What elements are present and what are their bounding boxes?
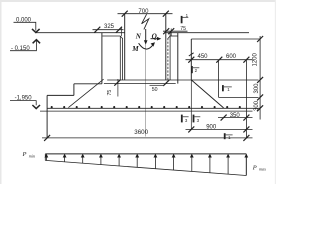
- bedding layer: [40, 110, 253, 112]
- cup mouth ledge right: [170, 35, 178, 37]
- section mark (under 450): [192, 66, 199, 73]
- svg-text:1200: 1200: [253, 52, 259, 66]
- footing left: step 1 face: [73, 84, 75, 96]
- svg-text:75: 75: [180, 26, 186, 32]
- dimension 350: [218, 115, 253, 121]
- svg-text:0.000: 0.000: [16, 17, 32, 23]
- footing right slope: [191, 80, 223, 108]
- svg-text:300: 300: [254, 100, 260, 111]
- footing left: step 2 top: [47, 94, 74, 96]
- svg-text:1: 1: [227, 87, 230, 92]
- force N arrow: [144, 29, 148, 45]
- pedestal ext line down to 900 dim: [190, 80, 192, 129]
- svg-text:2: 2: [195, 68, 198, 73]
- svg-text:300: 300: [254, 83, 260, 94]
- cup outer wall left: [101, 33, 103, 84]
- level mark 0.000: [14, 22, 40, 32]
- svg-text:75: 75: [107, 90, 113, 96]
- cup mouth ledge left: [102, 35, 120, 37]
- footing right step top: [219, 96, 259, 98]
- dimension line 1200 / 300 / 300 (vertical right): [257, 36, 263, 120]
- dimension 700: [118, 11, 173, 17]
- rebar dots: [51, 106, 241, 108]
- cup inner wall left (double): [119, 36, 121, 80]
- footing right edge + extension: [245, 60, 247, 139]
- column: [124, 14, 126, 80]
- footing right step edge: [218, 60, 220, 98]
- section mark (near 900): [225, 133, 233, 139]
- column break line: [142, 14, 149, 29]
- svg-text:50: 50: [152, 87, 158, 93]
- svg-text:450: 450: [198, 54, 209, 60]
- pressure diagram sloped bottom: [45, 160, 246, 175]
- footing left edge + extension: [46, 95, 48, 138]
- dimension 75 (top right): [163, 28, 188, 36]
- grout gap dim 50 (right): [150, 80, 170, 86]
- pressure diagram left edge: [44, 154, 46, 161]
- svg-text:600: 600: [226, 54, 237, 60]
- pedestal edge right: [190, 39, 192, 80]
- svg-text:Q: Q: [152, 32, 157, 40]
- footing bottom: [47, 107, 260, 109]
- svg-text:700: 700: [138, 9, 149, 15]
- svg-text:- 0.150: - 0.150: [11, 46, 30, 52]
- dimension 900: [186, 126, 253, 132]
- svg-text:900: 900: [206, 124, 217, 130]
- cup inner wall right (double): [167, 38, 169, 80]
- cup mouth bevel left: [120, 36, 122, 39]
- cup outer wall right upper: [177, 33, 179, 84]
- svg-text:-1,950: -1,950: [15, 95, 33, 101]
- dimension 325: [93, 27, 124, 36]
- section mark pair right: [194, 115, 201, 123]
- footing left: step 1 top: [74, 83, 102, 85]
- svg-text:3: 3: [185, 118, 188, 123]
- svg-text:P: P: [252, 164, 257, 171]
- level mark -1.950: [10, 101, 40, 109]
- floor line left (0.000): [36, 32, 125, 34]
- footing left slope edge (view): [68, 79, 103, 107]
- svg-text:M: M: [131, 45, 139, 53]
- column axis: [145, 42, 147, 137]
- level mark -0.150: [10, 40, 40, 51]
- svg-text:N: N: [135, 32, 142, 40]
- grout gap dim 75 (rotated, left): [114, 79, 120, 97]
- small mark on pedestal edge: [189, 53, 194, 56]
- page border top: [0, 0, 276, 2]
- force Q arrow: [151, 37, 162, 41]
- svg-text:350: 350: [230, 113, 241, 119]
- section mark pair left: [182, 115, 189, 123]
- dimension 450 / 600: [186, 57, 253, 63]
- cup mouth bevel right: [168, 36, 170, 39]
- section mark (inside step rect): [223, 85, 232, 91]
- moment M arc arrow: [139, 42, 155, 49]
- pedestal top line (-0.150): [191, 38, 260, 40]
- dimension 3600: [42, 135, 253, 141]
- svg-text:max: max: [259, 167, 266, 172]
- svg-text:P: P: [22, 151, 27, 158]
- floor line right / cup top: [166, 32, 249, 34]
- cup bottom slab line: [104, 83, 176, 85]
- page border right: [275, 0, 276, 184]
- pressure diagram top line: [45, 153, 246, 155]
- cup cavity bottom line: [107, 79, 258, 81]
- page border left: [0, 0, 2, 184]
- svg-text:min: min: [29, 153, 35, 158]
- pressure arrows: [45, 154, 249, 176]
- svg-text:325: 325: [104, 24, 115, 30]
- svg-text:3: 3: [197, 118, 200, 123]
- svg-text:3600: 3600: [134, 129, 148, 136]
- section mark 1 (top right): [182, 16, 189, 23]
- pressure diagram right edge: [245, 154, 247, 176]
